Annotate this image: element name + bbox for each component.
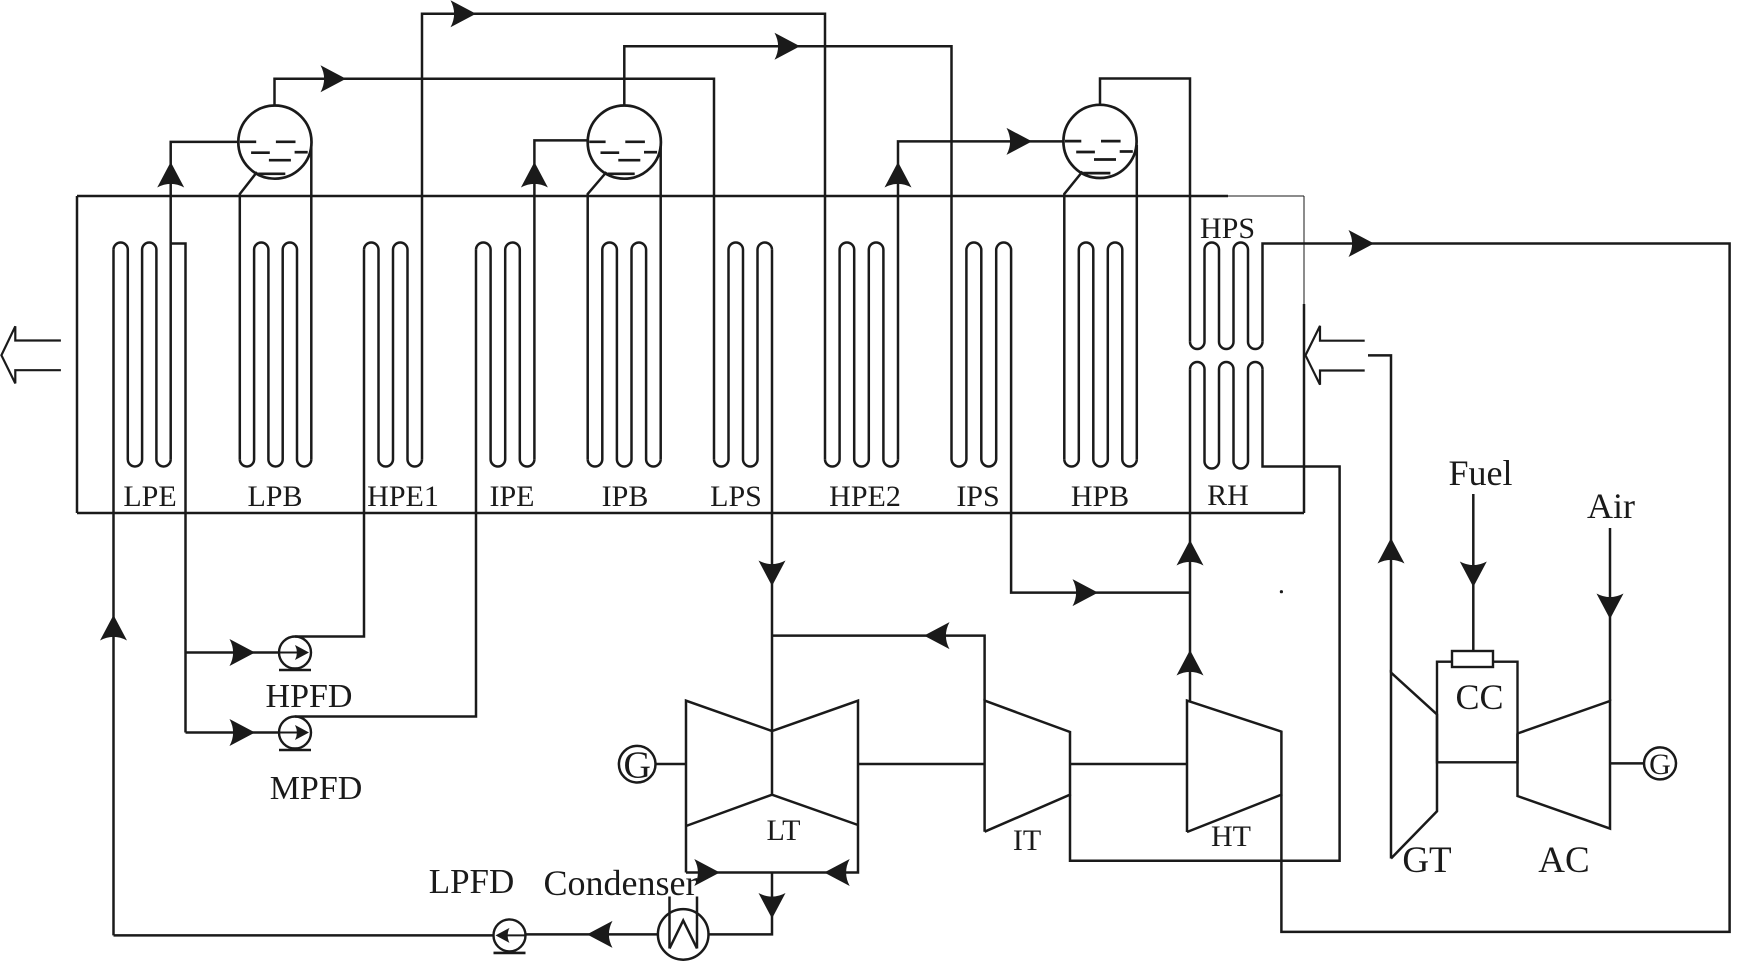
svg-text:HPB: HPB bbox=[1071, 480, 1129, 513]
svg-text:Air: Air bbox=[1587, 486, 1635, 526]
svg-text:CC: CC bbox=[1455, 677, 1503, 717]
svg-text:G: G bbox=[1649, 748, 1671, 781]
svg-text:HPFD: HPFD bbox=[266, 678, 353, 715]
svg-text:LT: LT bbox=[767, 814, 801, 847]
svg-text:IT: IT bbox=[1013, 824, 1041, 857]
svg-text:IPE: IPE bbox=[490, 480, 535, 513]
svg-text:Condenser: Condenser bbox=[544, 863, 698, 903]
svg-text:LPB: LPB bbox=[247, 480, 302, 513]
svg-text:G: G bbox=[623, 745, 650, 787]
svg-text:LPS: LPS bbox=[710, 480, 762, 513]
svg-text:IPB: IPB bbox=[602, 480, 649, 513]
svg-text:HPE2: HPE2 bbox=[829, 480, 901, 513]
svg-text:HPS: HPS bbox=[1200, 212, 1255, 245]
svg-text:MPFD: MPFD bbox=[270, 770, 363, 807]
svg-text:LPFD: LPFD bbox=[429, 862, 515, 901]
svg-text:RH: RH bbox=[1207, 479, 1249, 512]
svg-text:AC: AC bbox=[1538, 840, 1589, 881]
svg-text:HT: HT bbox=[1211, 820, 1251, 853]
svg-text:GT: GT bbox=[1402, 840, 1451, 881]
svg-text:Fuel: Fuel bbox=[1448, 453, 1512, 493]
svg-text:HPE1: HPE1 bbox=[367, 480, 439, 513]
svg-text:IPS: IPS bbox=[956, 480, 999, 513]
svg-text:LPE: LPE bbox=[123, 480, 176, 513]
